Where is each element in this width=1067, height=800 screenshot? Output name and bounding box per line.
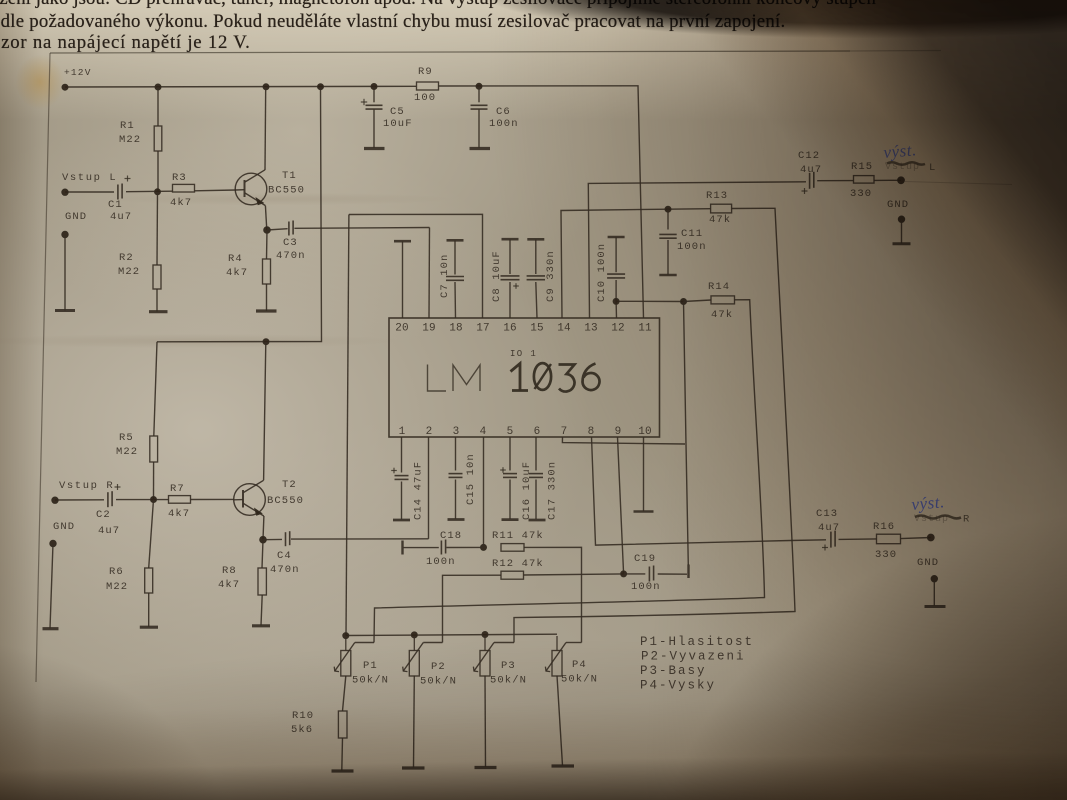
potentiometer P3 bbox=[473, 636, 527, 687]
resistor R5 bbox=[116, 342, 158, 500]
svg-text:C1: C1 bbox=[108, 199, 123, 211]
svg-text:13: 13 bbox=[584, 323, 598, 335]
svg-text:4u7: 4u7 bbox=[110, 211, 132, 223]
svg-text:3: 3 bbox=[453, 426, 460, 438]
wire pin 4 bbox=[483, 437, 485, 547]
svg-text:4k7: 4k7 bbox=[170, 197, 192, 209]
potentiometer P1 bbox=[334, 636, 389, 687]
svg-text:Vstup: Vstup bbox=[885, 162, 920, 173]
svg-text:výst.: výst. bbox=[883, 140, 918, 162]
svg-text:C14 47uF: C14 47uF bbox=[413, 461, 425, 520]
node T2 emitter bbox=[260, 536, 267, 543]
svg-text:14: 14 bbox=[557, 323, 571, 335]
svg-text:R4: R4 bbox=[228, 253, 243, 265]
svg-text:P3-Basy: P3-Basy bbox=[640, 664, 707, 678]
capacitor C6 bbox=[470, 86, 519, 148]
svg-text:7: 7 bbox=[561, 426, 568, 438]
wire pin 13 output L bbox=[588, 182, 806, 318]
label +12V bbox=[64, 67, 92, 78]
node input L bbox=[62, 189, 161, 196]
svg-text:18: 18 bbox=[449, 323, 463, 335]
svg-text:4u7: 4u7 bbox=[800, 164, 822, 176]
node T2 collector junction bbox=[263, 339, 269, 345]
svg-text:100n: 100n bbox=[677, 241, 707, 253]
op-amp U1 IC LM1036 outline bbox=[389, 318, 660, 437]
resistor R12 bbox=[492, 558, 544, 579]
svg-text:GND: GND bbox=[65, 211, 87, 223]
svg-text:R5: R5 bbox=[119, 432, 134, 444]
wire T2 emitter bbox=[262, 516, 265, 540]
handwritten note vyst R blue bbox=[911, 492, 970, 525]
wire R15 to output terminal bbox=[874, 179, 901, 181]
svg-text:50k/N: 50k/N bbox=[420, 676, 457, 688]
wire T1 collector bbox=[264, 87, 267, 170]
svg-text:IO 1: IO 1 bbox=[510, 349, 537, 359]
svg-text:50k/N: 50k/N bbox=[561, 674, 598, 686]
node output L terminal bbox=[898, 177, 1012, 185]
svg-text:T2: T2 bbox=[282, 479, 297, 491]
svg-text:C10 100n: C10 100n bbox=[596, 243, 608, 302]
schematic frame border bbox=[36, 51, 941, 683]
svg-text:47k: 47k bbox=[711, 309, 733, 321]
svg-text:C6: C6 bbox=[496, 106, 511, 118]
label LM 1036 bbox=[428, 363, 600, 391]
svg-text:L: L bbox=[929, 162, 935, 174]
resistor R8 bbox=[218, 540, 270, 626]
svg-text:C3: C3 bbox=[283, 237, 298, 249]
wire pin 9 bbox=[618, 437, 624, 574]
wire pin 8 output R bbox=[592, 437, 827, 545]
svg-text:C13: C13 bbox=[816, 508, 838, 520]
wire pot top rail bbox=[346, 634, 557, 635]
wire input R bbox=[55, 498, 234, 501]
resistor R16 bbox=[873, 521, 901, 561]
wire +12V drop to channel R bbox=[157, 87, 322, 342]
node input R bbox=[52, 497, 157, 504]
pin numbers top row 20-11 bbox=[395, 323, 652, 335]
svg-text:10uF: 10uF bbox=[383, 118, 413, 130]
svg-text:C19: C19 bbox=[634, 553, 656, 565]
wire pot supply vertical bbox=[346, 215, 349, 636]
svg-text:R15: R15 bbox=[851, 161, 873, 173]
svg-text:C2: C2 bbox=[96, 509, 111, 521]
resistor R11 bbox=[492, 530, 544, 551]
svg-text:C4: C4 bbox=[277, 550, 292, 562]
svg-text:47k: 47k bbox=[709, 214, 731, 226]
label Vstup L bbox=[62, 172, 117, 184]
svg-text:C18: C18 bbox=[440, 530, 462, 542]
ground pot P3 bbox=[475, 676, 497, 768]
svg-text:M22: M22 bbox=[106, 581, 128, 593]
wire C4 to pin 2 bbox=[428, 437, 430, 539]
terminal bar C18 left bbox=[401, 541, 403, 555]
capacitor C10 bbox=[596, 237, 625, 318]
svg-text:R14: R14 bbox=[708, 281, 730, 293]
potentiometer P4 bbox=[545, 636, 598, 686]
resistor R10 bbox=[291, 676, 354, 771]
svg-text:4k7: 4k7 bbox=[218, 579, 240, 591]
resistor R4 bbox=[226, 230, 277, 311]
svg-text:BC550: BC550 bbox=[268, 185, 305, 197]
capacitor C17 bbox=[529, 437, 559, 520]
capacitor C13 bbox=[816, 508, 840, 551]
capacitor C7 bbox=[439, 240, 464, 318]
pin numbers bottom row 1-10 bbox=[399, 426, 652, 438]
label IO 1 bbox=[510, 349, 537, 359]
svg-text:4u7: 4u7 bbox=[818, 522, 840, 534]
terminal bar pin 10 bbox=[634, 437, 654, 512]
capacitor C8 bbox=[491, 239, 520, 318]
svg-text:P4-Vysky: P4-Vysky bbox=[640, 679, 716, 693]
svg-text:1: 1 bbox=[399, 426, 406, 438]
ground GND input L bbox=[55, 211, 87, 311]
capacitor C3 bbox=[267, 221, 430, 263]
svg-text:6: 6 bbox=[534, 426, 541, 438]
wire C12 to R15 bbox=[817, 180, 853, 182]
ground GND input R bbox=[43, 521, 76, 629]
wire R13 right drop bbox=[514, 208, 795, 642]
svg-text:C9 330n: C9 330n bbox=[545, 250, 557, 302]
svg-text:11: 11 bbox=[638, 323, 652, 335]
svg-text:50k/N: 50k/N bbox=[352, 675, 389, 687]
wire input L bbox=[65, 190, 236, 192]
svg-text:4k7: 4k7 bbox=[226, 267, 248, 279]
svg-text:R8: R8 bbox=[222, 565, 237, 577]
svg-text:C12: C12 bbox=[798, 150, 820, 162]
svg-text:R13: R13 bbox=[706, 190, 728, 202]
svg-text:BC550: BC550 bbox=[267, 495, 304, 507]
svg-text:T1: T1 bbox=[282, 170, 297, 182]
book paragraph text line 3 bbox=[0, 32, 251, 54]
svg-text:R1: R1 bbox=[120, 120, 135, 132]
potentiometer P2 bbox=[403, 636, 457, 688]
svg-text:12: 12 bbox=[611, 323, 625, 335]
svg-text:R2: R2 bbox=[119, 252, 134, 264]
node pin12 line bbox=[613, 298, 686, 304]
resistor R2 bbox=[118, 192, 168, 312]
wire C18 to pin4 bbox=[446, 546, 483, 548]
svg-text:470n: 470n bbox=[276, 250, 306, 262]
svg-text:C15 10n: C15 10n bbox=[465, 453, 477, 505]
svg-text:330: 330 bbox=[875, 549, 897, 561]
terminal bar pin 20 bbox=[394, 241, 411, 318]
svg-text:100n: 100n bbox=[426, 556, 456, 568]
svg-text:100: 100 bbox=[414, 92, 436, 104]
wire R16 to output terminal bbox=[901, 538, 931, 539]
svg-text:R: R bbox=[963, 514, 970, 526]
svg-text:8: 8 bbox=[588, 426, 595, 438]
svg-text:C5: C5 bbox=[390, 106, 405, 118]
svg-text:P1: P1 bbox=[363, 660, 378, 672]
ground GND output L bbox=[887, 199, 911, 244]
capacitor C5 bbox=[361, 87, 413, 149]
node pin 4 junction bbox=[481, 544, 487, 550]
svg-text:R3: R3 bbox=[172, 172, 187, 184]
book paragraph text line 1 bbox=[0, 0, 876, 10]
wire pin 7 to right column bbox=[562, 437, 685, 444]
svg-text:2: 2 bbox=[426, 426, 433, 438]
svg-text:4u7: 4u7 bbox=[98, 525, 120, 537]
terminal bar C19 right bbox=[687, 565, 689, 579]
svg-text:výst.: výst. bbox=[911, 492, 946, 514]
ground pot P4 bbox=[552, 676, 575, 767]
svg-text:C11: C11 bbox=[681, 228, 703, 240]
node C11 junction bbox=[665, 206, 671, 212]
resistor R13 bbox=[706, 190, 732, 226]
capacitor C16 bbox=[500, 437, 533, 520]
svg-text:M22: M22 bbox=[118, 266, 140, 278]
resistor R9 bbox=[414, 66, 439, 104]
wire pin 12 to node bbox=[616, 300, 683, 302]
ground pot P2 bbox=[402, 676, 425, 769]
capacitor C19 bbox=[624, 553, 687, 593]
wire R12 right to C19 node bbox=[524, 574, 624, 575]
node +12V rail junctions bbox=[62, 83, 482, 90]
wire T1 emitter bbox=[265, 206, 266, 231]
ground GND output R bbox=[917, 557, 946, 607]
svg-text:19: 19 bbox=[422, 323, 436, 335]
svg-text:GND: GND bbox=[53, 521, 75, 533]
resistor R14 bbox=[708, 281, 735, 321]
capacitor C11 bbox=[659, 209, 706, 275]
book paragraph text line 2 bbox=[0, 11, 785, 33]
svg-text:15: 15 bbox=[530, 323, 544, 335]
svg-text:C7 10n: C7 10n bbox=[439, 254, 451, 298]
svg-text:330: 330 bbox=[850, 188, 872, 200]
svg-text:R11 47k: R11 47k bbox=[492, 530, 544, 542]
svg-text:100n: 100n bbox=[489, 118, 519, 130]
svg-text:9: 9 bbox=[615, 426, 622, 438]
wire C3 to pin 19 bbox=[428, 228, 431, 319]
capacitor C15 bbox=[448, 437, 478, 520]
svg-text:P2-Vyvazeni: P2-Vyvazeni bbox=[641, 650, 746, 664]
transistor T2 bbox=[234, 479, 304, 516]
capacitor C18 bbox=[426, 530, 462, 568]
svg-text:R16: R16 bbox=[873, 521, 895, 533]
svg-text:GND: GND bbox=[887, 199, 909, 211]
capacitor C14 bbox=[391, 437, 424, 520]
svg-text:4: 4 bbox=[480, 426, 487, 438]
transistor T1 bbox=[235, 170, 305, 206]
svg-text:R6: R6 bbox=[109, 566, 124, 578]
resistor R15 bbox=[850, 161, 874, 200]
svg-text:16: 16 bbox=[503, 323, 517, 335]
wire top box pin 17 bbox=[349, 214, 483, 318]
capacitor C12 bbox=[798, 150, 822, 194]
svg-text:R10: R10 bbox=[292, 710, 314, 722]
svg-text:50k/N: 50k/N bbox=[490, 675, 527, 687]
svg-text:P4: P4 bbox=[572, 659, 587, 671]
svg-text:R7: R7 bbox=[170, 483, 185, 495]
svg-text:470n: 470n bbox=[270, 564, 300, 576]
svg-text:5k6: 5k6 bbox=[291, 724, 313, 736]
wire R12 left to P2 bbox=[443, 575, 502, 642]
svg-text:17: 17 bbox=[476, 323, 490, 335]
node output R terminal bbox=[927, 534, 934, 541]
capacitor C1 bbox=[108, 176, 132, 224]
svg-text:P1-Hlasitost: P1-Hlasitost bbox=[640, 635, 754, 649]
svg-text:R9: R9 bbox=[418, 66, 433, 78]
wire right column vertical bbox=[684, 302, 689, 566]
wire T2 collector bbox=[264, 342, 266, 480]
node pot rail junctions bbox=[343, 632, 488, 639]
resistor R3 bbox=[170, 172, 195, 209]
wire R14 right drop bbox=[374, 300, 765, 643]
svg-text:M22: M22 bbox=[116, 446, 138, 458]
svg-text:C8 10uF: C8 10uF bbox=[491, 250, 503, 302]
svg-text:20: 20 bbox=[395, 323, 409, 335]
svg-text:Vstup L: Vstup L bbox=[62, 172, 117, 184]
resistor R6 bbox=[106, 500, 158, 628]
wire C13 to R16 bbox=[839, 538, 877, 541]
capacitor C4 bbox=[263, 531, 429, 576]
svg-text:4k7: 4k7 bbox=[168, 508, 190, 520]
svg-text:GND: GND bbox=[917, 557, 939, 569]
capacitor C9 bbox=[527, 239, 557, 318]
svg-text:P2: P2 bbox=[431, 661, 446, 673]
svg-text:M22: M22 bbox=[119, 134, 141, 146]
svg-text:R12 47k: R12 47k bbox=[492, 558, 544, 570]
legend pot functions bbox=[640, 635, 754, 693]
wire +12V rail bbox=[65, 86, 644, 318]
capacitor C2 bbox=[96, 484, 121, 537]
wire pin 14 loop bbox=[561, 209, 711, 318]
resistor R1 bbox=[119, 87, 162, 192]
svg-text:Vstup R: Vstup R bbox=[59, 480, 114, 492]
svg-text:10: 10 bbox=[638, 426, 652, 438]
svg-text:C17 330n: C17 330n bbox=[547, 461, 559, 520]
wire C18 line bbox=[404, 547, 439, 549]
label Vstup R bbox=[59, 480, 114, 492]
svg-text:P3: P3 bbox=[501, 660, 516, 672]
resistor R7 bbox=[168, 483, 191, 520]
wire R11 to P4 bbox=[524, 547, 582, 642]
node T1 emitter bbox=[264, 227, 271, 234]
svg-text:5: 5 bbox=[507, 426, 514, 438]
svg-text:C16 10uF: C16 10uF bbox=[521, 461, 533, 520]
handwritten note vyst L blue bbox=[883, 140, 936, 174]
svg-text:+12V: +12V bbox=[64, 67, 92, 78]
node C19 junction bbox=[621, 571, 627, 577]
svg-text:Vstup: Vstup bbox=[914, 514, 949, 525]
svg-text:100n: 100n bbox=[631, 581, 661, 593]
